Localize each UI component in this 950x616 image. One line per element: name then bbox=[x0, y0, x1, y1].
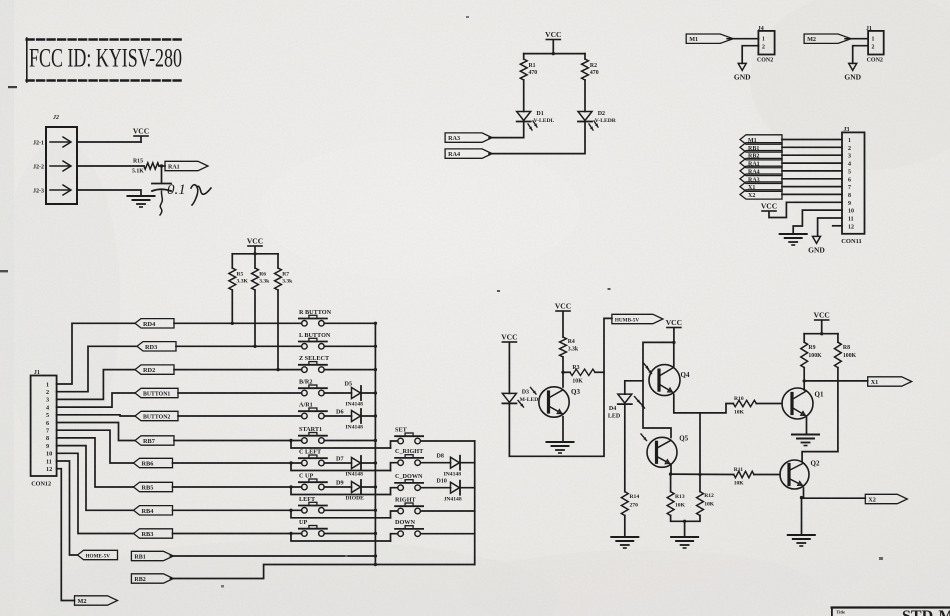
title block bbox=[832, 606, 950, 608]
wire VCC rail to R1 R2 bbox=[524, 53, 585, 55]
node VCC rail junction bbox=[552, 52, 555, 55]
pushbutton RIGHT bbox=[398, 508, 404, 514]
wire under-route to SET bbox=[391, 441, 398, 448]
wire RA4 to D2 bbox=[489, 122, 585, 154]
net label RA3 bbox=[445, 133, 492, 142]
connector J4 CON2 bbox=[758, 31, 774, 55]
net label RA1 (J3) bbox=[740, 158, 782, 167]
pushbutton Z SELECT bbox=[302, 367, 308, 373]
wire J2-3 to ground bbox=[77, 190, 141, 195]
wire L BUTTON to bus A bbox=[324, 345, 375, 347]
wire R14 top (D4 cathode) bbox=[624, 404, 626, 491]
wire R2 to D2 bbox=[584, 80, 586, 112]
wire Q3 emitter to ground bbox=[562, 417, 564, 441]
wire RB4 to LEFT switch bbox=[173, 509, 302, 511]
wire BUTTON2 to A/R1 switch bbox=[178, 415, 302, 417]
node R12 row junction bbox=[698, 473, 701, 476]
resistor R11 10K bbox=[734, 471, 754, 477]
wire C UP to diode D9 bbox=[324, 486, 351, 488]
wire R15 to RA1 bbox=[159, 165, 165, 167]
ground (Q2) bbox=[788, 534, 815, 536]
transistor Q3 bbox=[539, 387, 569, 417]
node R13R12 gnd junction bbox=[683, 520, 686, 523]
wire J1top pin2 to GND bbox=[853, 46, 868, 64]
net label HOME-5V bbox=[78, 550, 118, 559]
wire VCC rail (R9 R8) bbox=[804, 333, 838, 335]
ground GND (J1 top) bbox=[849, 63, 857, 70]
wire J2-2 to R15 bbox=[77, 165, 144, 167]
resistor R10 10K bbox=[733, 400, 756, 406]
wire Q2 emitter node bbox=[803, 488, 805, 498]
wire J1 pin 7 to RB6 bbox=[57, 430, 134, 463]
wire R7 to row3 bbox=[277, 290, 279, 370]
wire LEFT to bus A bbox=[324, 509, 375, 511]
wire RB5 to C UP switch bbox=[173, 486, 302, 488]
wire B/R2 to diode D5 bbox=[324, 392, 351, 394]
transistor Q1 bbox=[782, 388, 813, 419]
wire J1 pin 5 to BUTTON2 bbox=[57, 415, 135, 416]
net label RB1 (bottom) bbox=[131, 551, 173, 560]
wire RIGHT to bus B bbox=[421, 510, 475, 512]
pushbutton C UP bbox=[302, 484, 308, 490]
node VCC drop junction bbox=[672, 341, 675, 344]
diode D5 IN4148 bbox=[352, 388, 361, 399]
wire Q5 emitter node bbox=[670, 466, 672, 475]
light arrows Q5 bbox=[641, 434, 647, 441]
wire M1 to J4 bbox=[727, 38, 758, 40]
wire RB1 to bus A bbox=[170, 555, 375, 557]
pushbutton R BUTTON bbox=[302, 321, 308, 327]
connector J1 CON12 bbox=[31, 376, 57, 477]
wire J2-1 to VCC bbox=[77, 141, 141, 143]
LED D2 V-LEDR bbox=[578, 112, 592, 121]
net label RD3 bbox=[137, 342, 176, 351]
ground (J3 pin10) bbox=[780, 233, 807, 235]
pushbutton LEFT bbox=[302, 508, 308, 514]
connector J3 CON11 bbox=[842, 132, 865, 233]
wire R4 to Q3 collector node bbox=[562, 357, 564, 387]
net label RB5 bbox=[134, 482, 173, 491]
wire J1 pin 10 to RB3 bbox=[57, 453, 134, 533]
wire C_DOWN to diode D10 bbox=[421, 487, 450, 489]
LED D4 bbox=[618, 394, 632, 403]
node LEFT under-route junction bbox=[289, 509, 292, 512]
transistor Q2 bbox=[780, 460, 809, 489]
wire D8 to bus B bbox=[460, 462, 475, 464]
net label X2 (J3) bbox=[740, 190, 782, 199]
wire D4 anode tap bbox=[625, 381, 643, 394]
node pullup rail junction bbox=[253, 252, 256, 255]
node bus A junction bbox=[374, 345, 377, 348]
wire RA3 to D1 bbox=[489, 122, 524, 138]
net label M2 (top) bbox=[804, 34, 851, 43]
transistor Q5 (photo) bbox=[647, 437, 677, 467]
wire R12 riser bbox=[699, 413, 701, 492]
ground (Q3) bbox=[547, 441, 574, 443]
wire J1 pin 6 to RB7 bbox=[57, 423, 135, 441]
net label RD4 bbox=[135, 319, 174, 328]
pushbutton B/R2 bbox=[302, 390, 308, 396]
wire RA3 to J3 pin 6 bbox=[782, 178, 842, 180]
wire Q1 emitter to ground bbox=[806, 418, 808, 434]
wire BUTTON1 to B/R2 switch bbox=[178, 392, 302, 394]
node UP under-route junction bbox=[289, 532, 292, 535]
wire Q2 emitter to X2 bbox=[802, 497, 866, 499]
wire R5 to row1 bbox=[231, 290, 233, 323]
LED D1 V-LEDL bbox=[517, 112, 531, 121]
resistor R9 100K bbox=[801, 342, 808, 367]
wire D3 cathode to R3 node bbox=[509, 318, 612, 456]
net label RA1 bbox=[165, 161, 208, 170]
resistor R6 3.3k bbox=[252, 268, 259, 290]
wire J1 pin 9 to RB4 bbox=[57, 446, 134, 511]
node bus A junction bbox=[374, 391, 377, 394]
wire J1 pin12 to M2 bbox=[57, 469, 75, 601]
resistor R5 3.3K bbox=[229, 268, 236, 290]
pushbutton A/R1 bbox=[302, 413, 308, 419]
wire C LEFT to diode D7 bbox=[324, 462, 351, 464]
wire LEFT row under-route bbox=[291, 510, 391, 518]
wire C_RIGHT to diode D8 bbox=[421, 462, 450, 464]
diode D9 DIODE bbox=[352, 482, 361, 493]
ground (J2) bbox=[128, 195, 155, 197]
wire M1 to J3 pin 1 bbox=[782, 139, 842, 141]
node C UP under-route junction bbox=[289, 485, 292, 488]
wire START1 to bus A bbox=[324, 440, 375, 442]
net label M1 (J3) bbox=[740, 135, 782, 144]
pushbutton SET bbox=[398, 438, 404, 444]
wire D7 to bus A bbox=[361, 462, 375, 464]
wire X2 to J3 pin 8 bbox=[782, 193, 842, 195]
wire R8 to Q2 collector bbox=[802, 368, 838, 461]
wire DOWN to bus B bbox=[421, 533, 475, 535]
wire J1 pin 2 to RD3 bbox=[57, 346, 137, 391]
net label BUTTON2 bbox=[135, 411, 178, 420]
node VCC rail junction (right) bbox=[820, 332, 823, 335]
wire Q4 emitter to R10 row bbox=[674, 395, 734, 413]
net label RD2 bbox=[135, 365, 174, 374]
resistor R14 270 bbox=[621, 492, 628, 516]
wire RB1 to J3 pin 2 bbox=[782, 146, 842, 148]
net label RB7 bbox=[135, 436, 174, 445]
resistor R12 10K bbox=[697, 492, 704, 516]
wire D5 to bus A bbox=[361, 392, 375, 394]
node Q2 emitter junction bbox=[800, 496, 803, 499]
FCC ID label box bbox=[27, 38, 183, 40]
node Q1 collector junction bbox=[803, 379, 806, 382]
wire J3 pin11 to GND bbox=[818, 218, 842, 236]
wire under-route to DOWN bbox=[391, 534, 398, 541]
net label RB3 bbox=[134, 529, 173, 538]
wire J1 pin 4 to BUTTON1 bbox=[57, 393, 135, 407]
wire A/R1 to diode D6 bbox=[324, 415, 351, 417]
resistor R1 470 bbox=[520, 59, 527, 80]
pushbutton C_RIGHT bbox=[398, 460, 404, 466]
wire D10 to bus B bbox=[460, 487, 475, 489]
node bus A bottom junction bbox=[374, 563, 377, 566]
wire RB2 to bus B bottom bbox=[170, 565, 474, 579]
wire START1 row under-route bbox=[291, 441, 391, 449]
wire Q1 collector to X1 bbox=[804, 380, 868, 382]
net label X2 bbox=[865, 494, 907, 503]
wire RD2 to Z SELECT switch bbox=[174, 369, 302, 371]
J2 pin arrow J2-3 bbox=[50, 189, 70, 191]
pushbutton UP bbox=[302, 531, 308, 537]
wire J1 pin 8 to RB5 bbox=[57, 438, 134, 487]
connector J2 bbox=[46, 127, 77, 204]
J2 pin arrow J2-1 bbox=[50, 141, 70, 143]
wire bus B (right column bus) bbox=[474, 441, 476, 565]
node bus A RB1 junction bbox=[374, 554, 377, 557]
wire R13 R12 bottoms bbox=[671, 516, 700, 522]
scan specks bbox=[497, 290, 500, 292]
node bus A junction bbox=[374, 322, 377, 325]
wire RD3 to L BUTTON switch bbox=[176, 345, 302, 347]
wire J3 pin12 stub bbox=[833, 225, 842, 227]
net label HUMB-5V bbox=[612, 314, 663, 323]
resistor R2 470 bbox=[582, 59, 589, 80]
ground (R14) bbox=[611, 536, 638, 538]
net label RA4 bbox=[445, 149, 492, 158]
wire R11 to Q2 base bbox=[754, 474, 780, 476]
net label M2 (bottom) bbox=[75, 596, 118, 605]
diode D7 IN4148 bbox=[352, 458, 361, 469]
wire pullup rail bbox=[232, 253, 278, 255]
capacitor C 0.1u (hand-drawn) bbox=[161, 166, 163, 182]
net label RB4 bbox=[134, 506, 173, 515]
wire Q2 emitter to ground bbox=[801, 498, 803, 534]
wire D6 to bus A bbox=[361, 415, 375, 417]
wire R13 top bbox=[670, 474, 672, 492]
transistor Q4 (photo) bbox=[649, 365, 680, 396]
wire RD4 to R BUTTON switch bbox=[174, 322, 302, 324]
wire R9 to Q1 collector bbox=[803, 368, 805, 390]
wire J1 pin 1 to RD4 bbox=[57, 323, 135, 384]
node bus A junction bbox=[374, 509, 377, 512]
node bus A junction bbox=[374, 485, 377, 488]
wire RB3 to UP switch bbox=[173, 533, 302, 535]
wire RA4 to J3 pin 5 bbox=[782, 170, 842, 172]
resistor R7 3.3k bbox=[275, 268, 282, 290]
wire VCC branch (Q4 Q5 D4) bbox=[643, 342, 674, 437]
net label X1 bbox=[868, 377, 912, 386]
net label RA4 (J3) bbox=[740, 166, 782, 175]
ground (Q1) bbox=[792, 434, 819, 436]
wire J1 pin11 to HOME-5V bbox=[57, 461, 78, 555]
light arrows D3 to Q3 bbox=[531, 388, 537, 395]
diode D10 JN4148 bbox=[451, 482, 460, 493]
wire RB7 to START1 switch bbox=[174, 440, 302, 442]
ground GND (J4) bbox=[738, 63, 746, 70]
wire Z SELECT to bus A bbox=[324, 369, 375, 371]
net label RB2 (J3) bbox=[740, 151, 782, 160]
wire under-route to RIGHT bbox=[391, 511, 398, 518]
light arrows D4 bbox=[635, 397, 641, 404]
net label BUTTON1 bbox=[135, 388, 178, 397]
wire J4 pin2 to GND bbox=[742, 46, 758, 64]
wire UP to bus A bbox=[324, 533, 375, 535]
net label RB1 (J3) bbox=[740, 143, 782, 152]
wire M2 to J1top bbox=[845, 38, 868, 40]
node bus A junction bbox=[374, 368, 377, 371]
wire RA1 to J3 pin 4 bbox=[782, 162, 842, 164]
wire R1 to D1 bbox=[523, 80, 525, 112]
net label RB2 (bottom) bbox=[131, 574, 173, 583]
wire D9 to bus A bbox=[361, 486, 375, 488]
wire UP row under-route bbox=[291, 534, 391, 542]
diode D6 IN4148 bbox=[352, 411, 361, 422]
pushbutton DOWN bbox=[398, 531, 404, 537]
wire Q4 collector bbox=[673, 342, 675, 366]
stray scan mark bbox=[8, 86, 17, 88]
wire C LEFT row under-route bbox=[291, 463, 391, 471]
wire R14 to ground bbox=[624, 516, 626, 537]
resistor R13 10K bbox=[667, 492, 674, 516]
resistor R3 10K bbox=[570, 369, 595, 375]
wire to ground (R13 R12) bbox=[684, 521, 686, 536]
net label X1 (J3) bbox=[740, 182, 782, 191]
node Q5 emitter junction bbox=[669, 472, 672, 475]
wire J3 pin10 to ground bbox=[793, 210, 842, 233]
pushbutton START1 bbox=[302, 438, 308, 444]
wire R BUTTON to bus A bbox=[324, 322, 375, 324]
net label M1 (top) bbox=[686, 34, 733, 43]
wire RB2 to J3 pin 3 bbox=[782, 154, 842, 156]
wire bus A (left column bus) bbox=[374, 323, 376, 564]
pushbutton C_DOWN bbox=[398, 485, 404, 491]
node START1 under-route junction bbox=[289, 439, 292, 442]
diode D8 IN4148 bbox=[451, 457, 460, 468]
node C LEFT under-route junction bbox=[289, 461, 292, 464]
wire Q5 emitter to R11 row bbox=[671, 473, 734, 475]
resistor R15 5.1K bbox=[144, 163, 159, 169]
node RA1 junction bbox=[160, 164, 163, 167]
wire RB6 to C LEFT switch bbox=[173, 462, 302, 464]
node bus A junction bbox=[374, 439, 377, 442]
net label RA3 (J3) bbox=[740, 174, 782, 183]
pushbutton L BUTTON bbox=[302, 344, 308, 350]
wire SET to bus B bbox=[421, 440, 475, 442]
light arrows Q4 bbox=[643, 363, 649, 370]
node Q3 collector junction bbox=[561, 371, 564, 374]
wire X1 to J3 pin 7 bbox=[782, 186, 842, 188]
LED D3 M-LED bbox=[502, 393, 516, 402]
wire C UP row under-route bbox=[291, 487, 391, 495]
wire R6 to row2 bbox=[254, 290, 256, 346]
node bus A junction bbox=[374, 461, 377, 464]
wire R10 to Q1 base bbox=[756, 403, 782, 405]
wire under-route to C_DOWN bbox=[391, 488, 398, 495]
pushbutton C LEFT bbox=[302, 460, 308, 466]
resistor R4 3.3k bbox=[560, 337, 567, 357]
net label RB6 bbox=[134, 458, 173, 467]
node bus A junction bbox=[374, 532, 377, 535]
J2 pin arrow J2-2 bbox=[50, 165, 70, 167]
connector J1 CON2 bbox=[868, 31, 884, 55]
ground GND (J3 pin11) bbox=[813, 236, 821, 243]
resistor R8 100K bbox=[835, 342, 842, 367]
ground (R13 R12) bbox=[671, 536, 698, 538]
wire under-route to C_RIGHT bbox=[391, 463, 398, 471]
wire J1 pin 3 to RD2 bbox=[57, 370, 135, 400]
node bus A junction bbox=[374, 414, 377, 417]
